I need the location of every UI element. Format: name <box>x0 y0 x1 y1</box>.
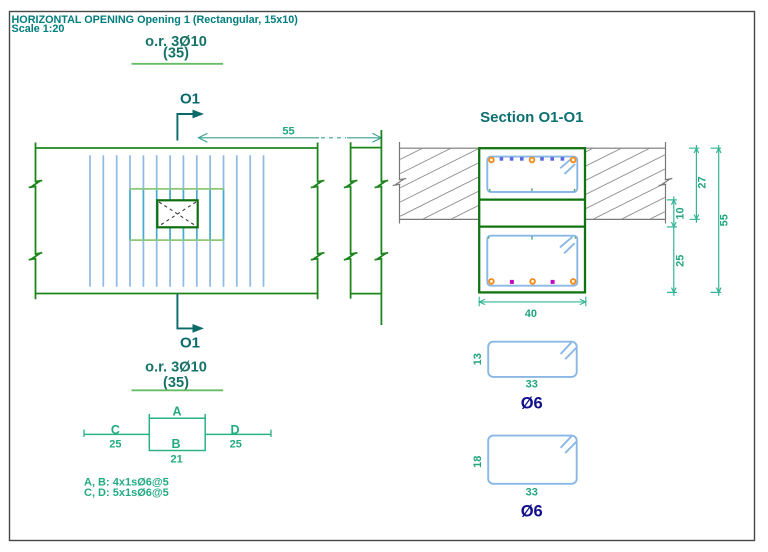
lower beam stirrup <box>487 236 577 286</box>
svg-text:C, D: 5x1sØ6@5: C, D: 5x1sØ6@5 <box>84 487 169 499</box>
svg-text:O1: O1 <box>180 334 200 351</box>
section wall right edge <box>665 142 667 224</box>
plan wall left edge break <box>29 253 43 260</box>
upper beam bottom tick marks <box>490 188 575 191</box>
dimension chain 10/25 line <box>673 196 675 296</box>
dimension 55 right ticks <box>711 148 722 292</box>
plan horizontal bar bottom (light green) <box>130 239 225 241</box>
svg-text:55: 55 <box>282 126 294 138</box>
svg-text:33: 33 <box>526 378 538 390</box>
dimension 55 right line <box>718 145 720 296</box>
lower beam middle bars (magenta squares) <box>510 280 514 284</box>
svg-text:o.r. 3Ø10: o.r. 3Ø10 <box>145 360 207 376</box>
svg-text:25: 25 <box>230 438 242 450</box>
svg-text:25: 25 <box>675 255 687 267</box>
svg-text:D: D <box>230 423 239 437</box>
plan rebar vertical bars (light blue) <box>90 155 264 286</box>
dimension 55 top line <box>198 137 319 139</box>
stirrup detail 2 outline <box>488 436 577 484</box>
second wall piece top edge <box>351 147 382 149</box>
svg-text:Section O1-O1: Section O1-O1 <box>480 109 583 126</box>
dimension 40 line <box>479 301 586 303</box>
svg-text:33: 33 <box>526 487 538 499</box>
svg-text:21: 21 <box>170 453 182 465</box>
section wall bottom edge right segment <box>586 218 666 220</box>
svg-text:Scale 1:20: Scale 1:20 <box>12 23 65 35</box>
lower beam top tick marks <box>489 236 576 239</box>
section wall left edge break <box>393 179 407 186</box>
plan horizontal bar top (light green) <box>130 188 225 190</box>
opening dashed X diagonal 1 <box>159 202 196 226</box>
dimension 40 extension ticks <box>479 297 586 307</box>
dimension 40 arrowheads <box>479 299 586 304</box>
section wall left edge <box>399 142 401 224</box>
stirrup detail 1 hook lines <box>561 342 577 359</box>
plan opening trimmer bars (cyan) <box>130 189 224 240</box>
second wall piece left edge break <box>344 181 358 188</box>
section upper beam bottom edge <box>479 198 585 200</box>
svg-text:O1: O1 <box>180 91 200 108</box>
svg-text:10: 10 <box>674 207 686 219</box>
plan wall right edge break <box>311 253 325 260</box>
section mark O1 bottom arrow <box>177 294 193 329</box>
second wall piece right edge <box>380 130 382 325</box>
bar shape figure D end tick <box>270 430 272 437</box>
bar shape figure D leg <box>205 433 271 435</box>
bar shape figure C leg <box>84 433 149 435</box>
section wall top edge right segment <box>586 147 666 149</box>
svg-text:(35): (35) <box>163 46 189 62</box>
lower beam stirrup hook lines <box>560 237 575 254</box>
svg-text:40: 40 <box>525 308 537 320</box>
plan wall top edge <box>36 147 318 149</box>
second wall piece bottom edge <box>351 293 382 295</box>
dimension 27 line <box>695 145 697 223</box>
section mark O1 top arrow <box>177 114 193 141</box>
dimension 27 ticks <box>689 148 700 219</box>
second wall piece right edge break <box>375 253 389 260</box>
svg-text:13: 13 <box>472 353 484 365</box>
bar shape figure box <box>149 414 205 451</box>
plan wall right edge break <box>311 181 325 188</box>
svg-text:C: C <box>111 423 120 437</box>
svg-text:Ø6: Ø6 <box>521 502 543 520</box>
dimension 27 arrowheads <box>694 148 699 219</box>
section wall hatch lines <box>400 0 666 344</box>
dimension 55 right arrowheads <box>716 148 721 292</box>
plan wall right edge <box>317 143 319 300</box>
upper beam corner bars (orange circles) <box>489 158 494 163</box>
dimension chain ticks <box>667 200 677 293</box>
svg-text:(35): (35) <box>163 375 189 391</box>
bar shape figure C end tick <box>83 430 85 437</box>
section wall right edge break <box>659 179 673 186</box>
plan wall bottom edge <box>36 293 318 295</box>
svg-text:A: A <box>172 405 181 419</box>
lower beam corner bars (orange circles) <box>489 279 494 284</box>
second wall piece left edge break <box>344 253 358 260</box>
opening rectangle (plan) <box>157 200 197 227</box>
stirrup detail 1 outline <box>488 342 577 377</box>
svg-text:Ø6: Ø6 <box>521 394 543 412</box>
upper beam stirrup <box>487 157 577 192</box>
svg-text:55: 55 <box>719 214 731 226</box>
plan wall left edge <box>35 143 37 300</box>
upper beam distribution bars (blue squares) <box>500 157 504 161</box>
bottom rebar underline <box>132 389 224 391</box>
section lower beam top edge <box>479 225 585 227</box>
upper beam stirrup hook lines <box>560 158 575 174</box>
section beam outline (green) <box>479 148 585 292</box>
plan wall left edge break <box>29 181 43 188</box>
section wall top edge left segment <box>400 147 479 149</box>
top rebar underline <box>132 63 224 65</box>
section wall bottom edge left segment <box>400 218 479 220</box>
stirrup detail 2 hook lines <box>561 436 577 453</box>
svg-text:18: 18 <box>472 456 484 468</box>
second wall piece left edge <box>350 142 352 298</box>
dimension chain arrowheads <box>672 200 677 293</box>
svg-text:B: B <box>171 437 180 451</box>
opening dashed X diagonal 2 <box>159 202 196 226</box>
svg-text:25: 25 <box>109 438 121 450</box>
svg-text:27: 27 <box>697 176 709 188</box>
second wall piece right edge break <box>375 181 389 188</box>
